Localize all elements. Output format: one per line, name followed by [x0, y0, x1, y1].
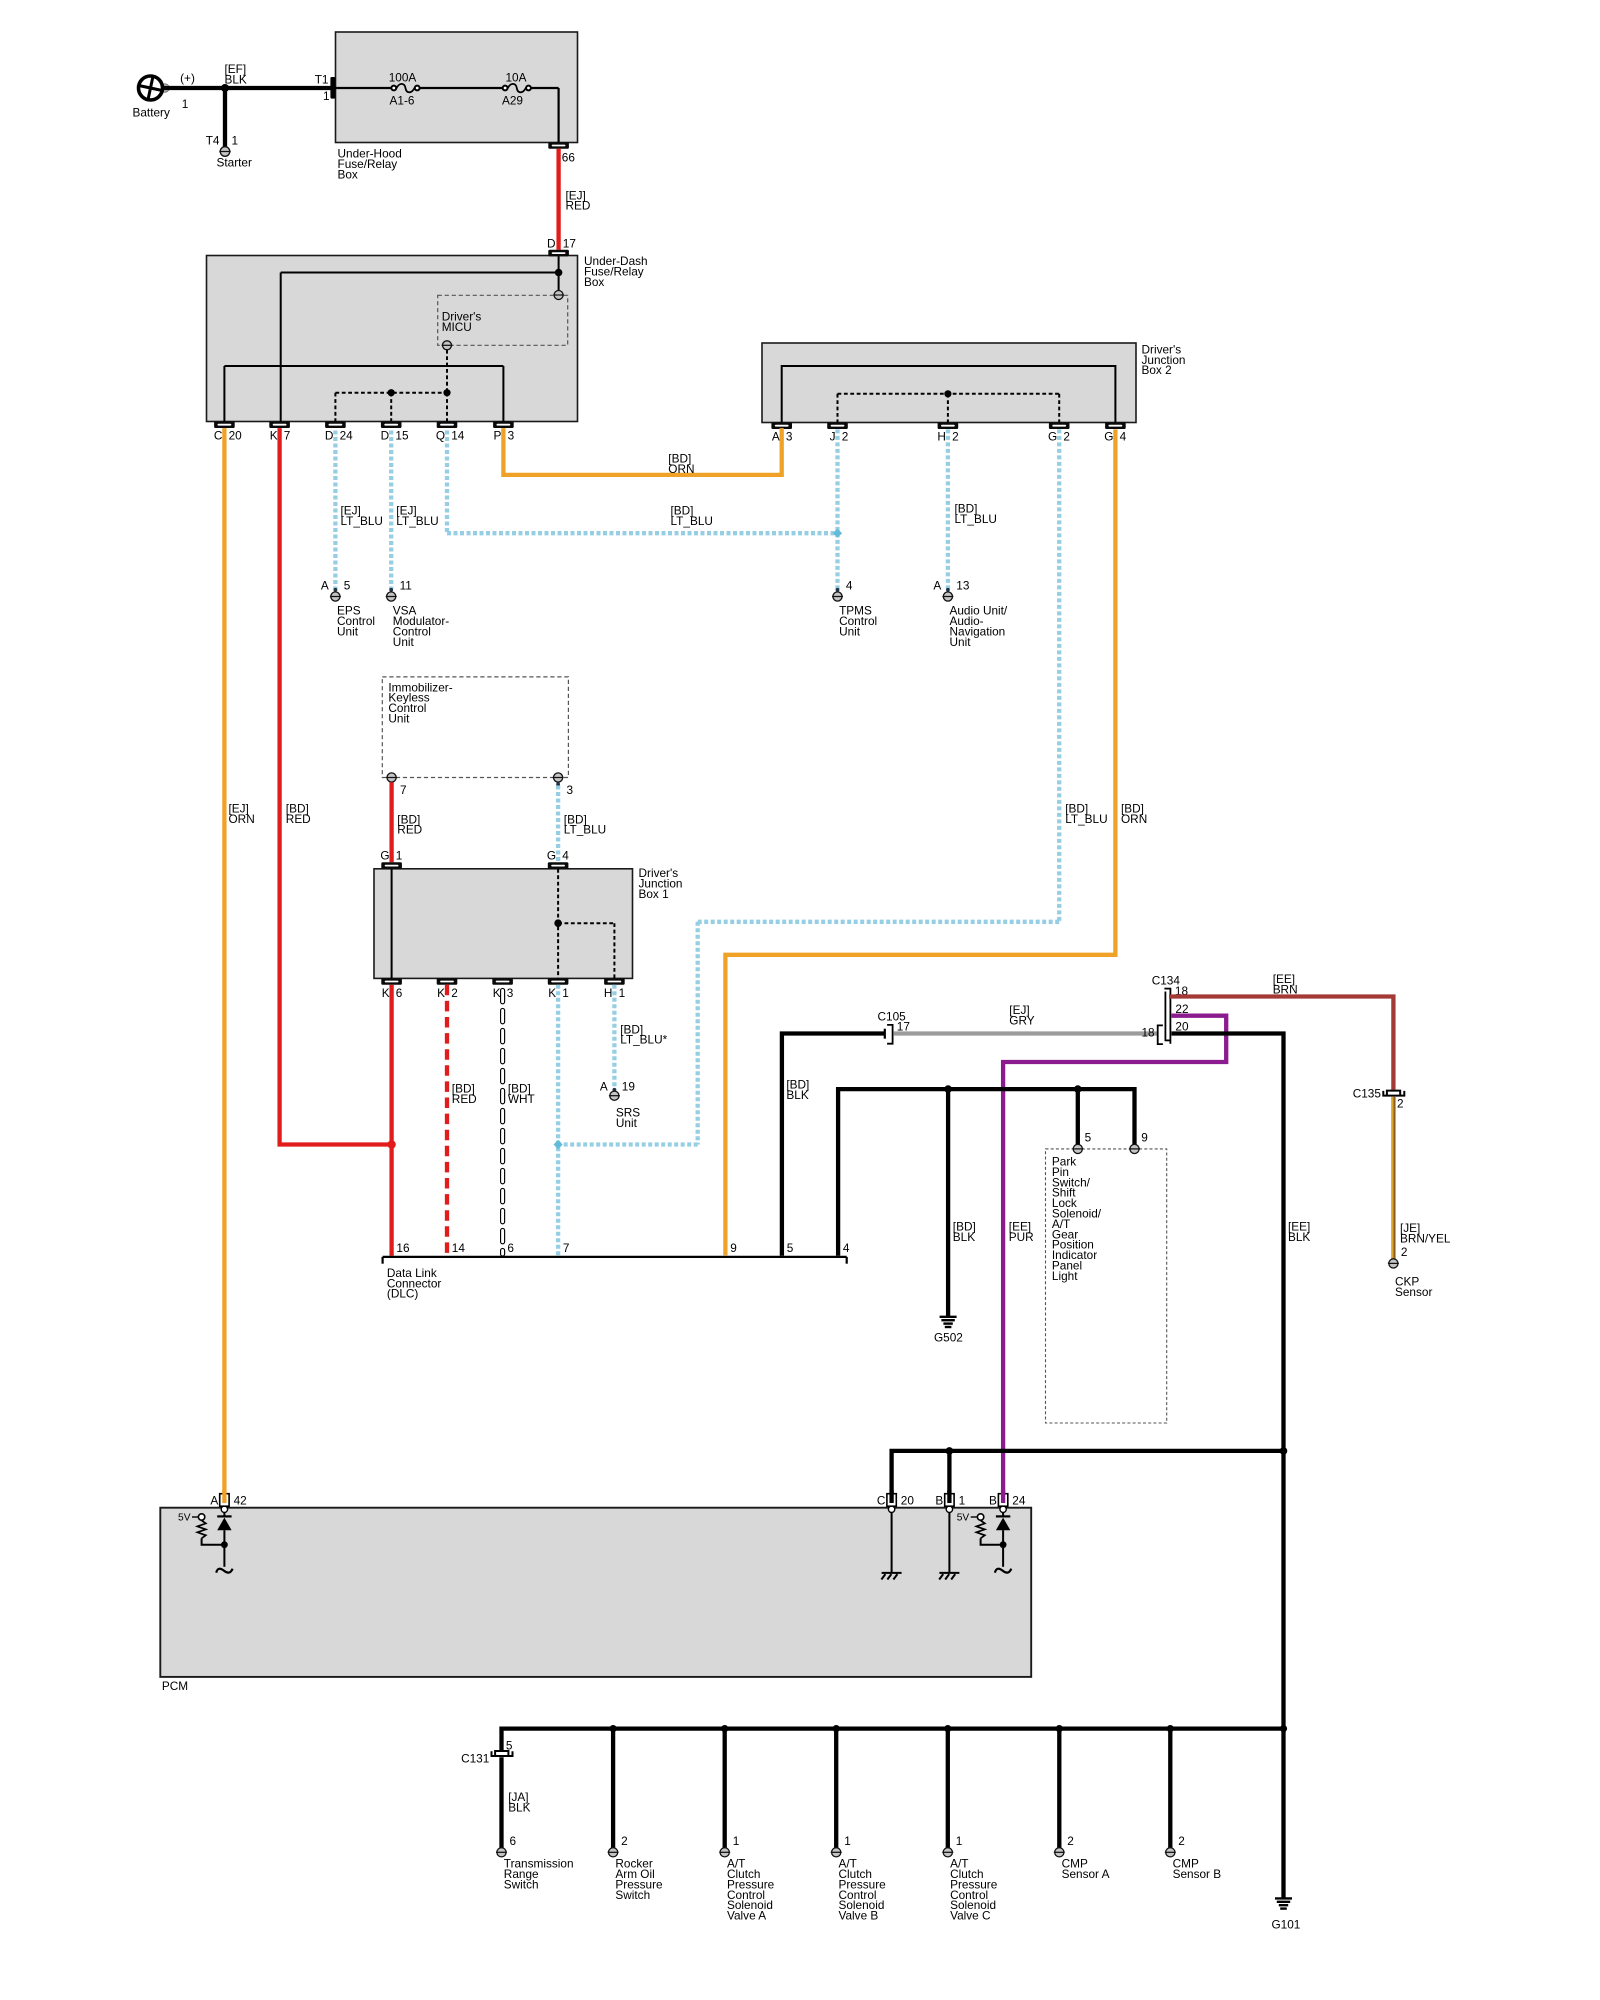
svg-text:GRY: GRY [1009, 1013, 1034, 1027]
svg-text:7: 7 [284, 428, 291, 442]
svg-text:Valve B: Valve B [839, 1909, 879, 1923]
park pin switch / shift lock solenoid box [1046, 1149, 1167, 1423]
terminal 1 A/T Clutch Pressure Control Solenoid Valve B [831, 1834, 886, 1923]
svg-text:14: 14 [452, 1241, 466, 1255]
svg-text:T1: T1 [315, 73, 329, 87]
connector P 3 [493, 421, 514, 442]
svg-text:D: D [547, 237, 556, 251]
junction node EE BLK [1280, 1447, 1288, 1455]
connector K 3 (DJB1) [492, 978, 514, 1000]
junction node under-dash [555, 269, 563, 277]
terminal 2 CMP Sensor A [1054, 1834, 1110, 1881]
svg-text:2: 2 [952, 429, 959, 443]
connector G 1 (DJB1) [380, 849, 402, 869]
terminal 6 Transmission Range Switch [496, 1834, 574, 1892]
wire bus drop at x=947.8 [946, 1729, 950, 1848]
junction node B1 [946, 1447, 954, 1455]
svg-text:2: 2 [451, 986, 458, 1000]
svg-text:2: 2 [1067, 1834, 1074, 1848]
svg-text:Valve C: Valve C [950, 1909, 991, 1923]
svg-text:J: J [830, 429, 836, 443]
svg-text:2: 2 [1401, 1245, 1408, 1259]
fuse 10A A29 [502, 71, 531, 108]
svg-text:BLK: BLK [953, 1230, 975, 1244]
PCM internal C20 ground [881, 1513, 901, 1580]
svg-text:2: 2 [1063, 429, 1070, 443]
svg-text:(+): (+) [180, 71, 195, 85]
svg-text:D: D [325, 428, 334, 442]
PCM box [160, 1508, 1031, 1693]
junction diamond Q14/J2 [833, 529, 842, 538]
svg-text:ORN: ORN [1121, 812, 1147, 826]
connector A 3 (DJB2) [771, 422, 793, 443]
svg-text:RED: RED [566, 199, 591, 213]
svg-text:K: K [493, 986, 501, 1000]
connector K 1 (DJB1) [548, 978, 569, 1000]
svg-text:16: 16 [396, 1241, 410, 1255]
wire [EJ] LT_BLU D24 to EPS [334, 431, 383, 592]
svg-text:BLK: BLK [1288, 1230, 1310, 1244]
dashed wire G4 to K1/H1 internal DJB1 [558, 869, 614, 978]
wire [BD] LT_BLU K1 to DLC 7 [556, 985, 560, 1256]
svg-text:10A: 10A [506, 71, 527, 85]
PCM internal B24: 5V pull-up, diode, signal [957, 1513, 1012, 1573]
svg-text:9: 9 [730, 1241, 737, 1255]
svg-text:C: C [877, 1494, 886, 1508]
wire [BD] BLK C105 to DLC 5 [782, 1034, 885, 1256]
svg-text:G101: G101 [1272, 1917, 1301, 1931]
svg-text:11: 11 [400, 578, 412, 592]
svg-text:G: G [380, 849, 389, 863]
junction node bus [1167, 1725, 1174, 1732]
svg-text:1: 1 [323, 89, 330, 103]
connector C134 pins 18 22 20 [1141, 973, 1188, 1044]
terminal 2 Rocker Arm Oil Pressure Switch [608, 1834, 663, 1902]
junction node DJB1 [554, 919, 562, 927]
svg-text:RED: RED [452, 1092, 477, 1106]
svg-text:B: B [935, 1494, 943, 1508]
svg-text:1: 1 [396, 849, 403, 863]
svg-text:A29: A29 [502, 94, 523, 108]
junction node DJB2 [944, 390, 951, 397]
wire bus drop at x=836.2 [834, 1729, 838, 1848]
svg-text:42: 42 [234, 1494, 247, 1508]
under-dash fuse/relay box [207, 254, 648, 422]
wire [BD] ORN G4 to DLC pin 9 [725, 429, 1147, 1255]
svg-text:7: 7 [563, 1241, 570, 1255]
svg-text:18: 18 [1141, 1025, 1155, 1039]
connector K 2 (DJB1) [437, 978, 458, 1000]
junction node bus [610, 1725, 617, 1732]
wire D17 internal [281, 256, 559, 421]
svg-text:66: 66 [562, 150, 576, 164]
bottom engine harness bus [502, 1726, 1284, 1730]
svg-text:9: 9 [1141, 1131, 1148, 1145]
svg-text:3: 3 [786, 429, 793, 443]
svg-text:5: 5 [1085, 1131, 1092, 1145]
svg-text:Sensor: Sensor [1395, 1285, 1432, 1299]
svg-text:Box 2: Box 2 [1142, 363, 1172, 377]
junction node bus [1056, 1725, 1063, 1732]
svg-text:K: K [382, 986, 390, 1000]
svg-text:6: 6 [507, 1241, 514, 1255]
wire C20 to P3 internal [224, 366, 503, 421]
svg-text:LT_BLU: LT_BLU [396, 514, 438, 528]
svg-text:LT_BLU: LT_BLU [671, 514, 713, 528]
wire [JA] BLK C131 to transmission range switch [502, 1757, 531, 1847]
svg-text:WHT: WHT [508, 1092, 535, 1106]
connector D 24 [325, 421, 353, 442]
connector K 6 (DJB1) [381, 978, 403, 1000]
starter terminal T4 1 [206, 134, 252, 170]
wire G1 to K6 internal DJB1 [391, 869, 393, 978]
svg-text:P: P [494, 428, 502, 442]
svg-text:4: 4 [1120, 429, 1127, 443]
junction node bus [944, 1725, 951, 1732]
svg-text:15: 15 [395, 428, 409, 442]
svg-text:3: 3 [567, 783, 574, 797]
svg-text:17: 17 [563, 237, 576, 251]
svg-text:2: 2 [842, 429, 849, 443]
connector G 4 (DJB2) [1104, 422, 1126, 443]
junction diamond K1/G2 [554, 1140, 563, 1149]
svg-text:T4: T4 [206, 134, 220, 148]
svg-text:1: 1 [619, 986, 626, 1000]
orange wire tip into A42 [222, 1490, 226, 1503]
svg-text:1: 1 [182, 97, 189, 111]
svg-text:K: K [270, 428, 278, 442]
svg-text:C135: C135 [1353, 1087, 1382, 1101]
svg-text:Valve A: Valve A [727, 1909, 766, 1923]
svg-text:RED: RED [286, 812, 311, 826]
svg-text:1: 1 [562, 986, 569, 1000]
svg-text:C: C [214, 428, 223, 442]
terminal 2 CMP Sensor B [1165, 1834, 1221, 1881]
svg-text:H: H [937, 429, 946, 443]
connector G 2 (DJB2) [1048, 422, 1070, 443]
svg-text:1: 1 [733, 1834, 740, 1848]
svg-text:Sensor B: Sensor B [1173, 1867, 1222, 1881]
svg-text:K: K [548, 986, 556, 1000]
svg-text:A1-6: A1-6 [390, 94, 415, 108]
svg-text:Unit: Unit [616, 1116, 638, 1130]
wire bus to C131 [499, 1727, 503, 1751]
CKP sensor 2 [1388, 1245, 1433, 1299]
under-hood fuse/relay box [336, 32, 578, 181]
svg-text:2: 2 [1178, 1834, 1185, 1848]
svg-text:G: G [547, 849, 556, 863]
svg-text:G: G [1104, 429, 1113, 443]
svg-text:A: A [772, 429, 780, 443]
connector J 2 (DJB2) [827, 422, 848, 443]
svg-text:4: 4 [846, 578, 853, 592]
wire [BD] LT_BLU* H1 to SRS [613, 985, 668, 1092]
svg-text:D: D [381, 428, 390, 442]
svg-text:PCM: PCM [162, 1679, 188, 1693]
svg-text:Unit: Unit [950, 635, 972, 649]
junction node park pin 5 branch [1074, 1085, 1082, 1093]
svg-text:LT_BLU: LT_BLU [341, 514, 383, 528]
svg-text:Light: Light [1052, 1269, 1078, 1283]
svg-text:1: 1 [959, 1494, 966, 1508]
svg-text:6: 6 [510, 1834, 517, 1848]
connector K 7 [269, 421, 290, 442]
svg-text:4: 4 [843, 1241, 850, 1255]
svg-text:1: 1 [956, 1834, 963, 1848]
wire [EE] PUR C134 22 to PCM B24 [1003, 1016, 1226, 1503]
wire [BD] BLK DLC 4 to park pin switch [838, 1089, 1134, 1316]
PCM connector A 42 [210, 1494, 246, 1513]
junction nodes dashed [388, 389, 395, 396]
wire bus drop at x=1170.3 [1168, 1729, 1172, 1848]
svg-text:20: 20 [901, 1494, 915, 1508]
svg-text:Sensor A: Sensor A [1062, 1867, 1110, 1881]
svg-text:Switch: Switch [615, 1888, 650, 1902]
EPS control unit A 5 [321, 578, 375, 638]
wire [BD] RED (dashed) K2 to DLC 14 [447, 985, 477, 1256]
wire [BD] LT_BLU Q14 to TPMS column [447, 431, 838, 534]
svg-text:(DLC): (DLC) [387, 1287, 419, 1301]
fuse 100A A1-6 [389, 71, 420, 108]
driver's MICU [438, 291, 568, 350]
connector D 17 [547, 237, 576, 257]
junction node T4 [221, 84, 229, 92]
svg-text:BLK: BLK [225, 72, 247, 86]
svg-text:H: H [604, 986, 613, 1000]
wire A3 to G4 internal [782, 366, 1116, 422]
wire [EJ] ORN C20 to PCM A42 [224, 428, 254, 1503]
svg-text:5: 5 [506, 1738, 513, 1752]
svg-text:100A: 100A [389, 71, 417, 85]
svg-text:14: 14 [451, 428, 465, 442]
wire to starter [223, 88, 227, 147]
svg-text:A: A [933, 578, 941, 592]
svg-text:Box 1: Box 1 [639, 887, 669, 901]
svg-text:24: 24 [1012, 1494, 1026, 1508]
wire [BD] RED immobilizer 7 to G1 [392, 782, 423, 862]
black wire tips into C20 B1 [889, 1490, 893, 1503]
junction node red [387, 1140, 395, 1148]
PCM internal A42: 5V pull-up, diode, signal [178, 1513, 233, 1573]
connector H 1 (DJB1) [604, 978, 625, 1000]
svg-text:A: A [600, 1079, 608, 1093]
svg-text:24: 24 [340, 428, 354, 442]
connector G 4 (DJB1) [547, 849, 569, 869]
wire to G101 [1281, 1729, 1285, 1898]
svg-text:1: 1 [232, 134, 239, 148]
connector C131 pin 5 [461, 1738, 513, 1765]
svg-text:19: 19 [622, 1079, 635, 1093]
svg-text:3: 3 [507, 986, 514, 1000]
svg-text:ORN: ORN [668, 462, 694, 476]
svg-text:6: 6 [396, 986, 403, 1000]
junction node G502 branch [944, 1085, 952, 1093]
svg-text:7: 7 [400, 783, 407, 797]
svg-text:G: G [1048, 429, 1057, 443]
wire [BD] LT_BLU G2 long run to K1 column [558, 429, 1108, 1144]
svg-text:Switch: Switch [504, 1877, 539, 1891]
svg-text:A: A [210, 1494, 218, 1508]
PCM connector B 24 [989, 1494, 1026, 1513]
SRS unit A 19 [600, 1079, 640, 1129]
svg-text:A: A [321, 578, 329, 592]
junction node bus [721, 1725, 728, 1732]
audio unit A 13 [933, 578, 1008, 649]
VSA modulator-control unit 11 [386, 578, 450, 649]
immobilizer-keyless control unit [382, 677, 573, 797]
wire [EJ] LT_BLU D15 to VSA [389, 431, 438, 592]
svg-text:Box: Box [338, 167, 358, 181]
wire [BD] RED K7 to K6 column [280, 428, 392, 1144]
svg-text:Starter: Starter [217, 156, 252, 170]
PCM connector B 1 [935, 1494, 965, 1513]
svg-text:2: 2 [1397, 1097, 1404, 1111]
park pin switch terminal 5 [1072, 1131, 1091, 1154]
svg-text:BLK: BLK [786, 1088, 808, 1102]
svg-text:3: 3 [508, 428, 515, 442]
connector H 2 (DJB2) [937, 422, 958, 443]
svg-text:G502: G502 [934, 1330, 963, 1344]
svg-text:MICU: MICU [442, 320, 472, 334]
wire inside under-hood box [335, 88, 558, 142]
svg-text:Q: Q [436, 428, 445, 442]
svg-text:2: 2 [621, 1834, 628, 1848]
junction node bus [1280, 1725, 1287, 1732]
svg-text:Battery: Battery [133, 106, 170, 120]
purple wire tip into B24 [1001, 1490, 1005, 1503]
PCM internal B1 ground [939, 1513, 959, 1580]
junction node bus [833, 1725, 840, 1732]
terminal 1 A/T Clutch Pressure Control Solenoid Valve A [719, 1834, 774, 1923]
svg-text:13: 13 [956, 578, 970, 592]
svg-text:LT_BLU: LT_BLU [564, 823, 606, 837]
TPMS control unit 4 [832, 578, 877, 638]
svg-text:20: 20 [229, 428, 243, 442]
svg-text:5V: 5V [178, 1513, 191, 1524]
wire [BD] LT_BLU J2 to TPMS [836, 429, 840, 591]
svg-text:1: 1 [844, 1834, 851, 1848]
svg-text:PUR: PUR [1009, 1230, 1034, 1244]
connector Q 14 [436, 421, 465, 442]
connector C135 pin 2 [1353, 1087, 1405, 1111]
battery [133, 71, 195, 120]
svg-text:Unit: Unit [393, 635, 415, 649]
connector T1 pin 1 [315, 73, 336, 104]
wire [JE] BRN/YEL C135 to CKP sensor [1392, 1097, 1451, 1259]
shift lock terminal 9 [1129, 1131, 1148, 1154]
wire [EE] BRN C134 18 to C135 [1169, 972, 1393, 1090]
driver's junction box 1 [374, 866, 682, 978]
connector 66 [548, 142, 575, 164]
driver's junction box 2 [762, 342, 1185, 422]
wire bus drop at x=1059.3 [1057, 1729, 1061, 1848]
svg-text:B: B [989, 1494, 997, 1508]
svg-text:5: 5 [787, 1241, 794, 1255]
wire bus drop at x=724.7 [723, 1729, 727, 1848]
connector D 15 [381, 421, 409, 442]
svg-text:BLK: BLK [508, 1800, 530, 1814]
wire [EJ] GRY C105 to C134 [894, 1003, 1157, 1034]
svg-text:LT_BLU: LT_BLU [955, 512, 997, 526]
wire [EE] BLK C134 20 to PCM and G101 [892, 1034, 1311, 1729]
svg-text:C131: C131 [461, 1752, 489, 1766]
dashed wires inside under-dash box [335, 350, 447, 422]
data link connector (DLC) [383, 1257, 847, 1301]
connector C105 pin 17 [878, 1010, 910, 1044]
wire [BD] LT_BLU immobilizer 3 to G4 [556, 782, 606, 862]
svg-text:BRN/YEL: BRN/YEL [1400, 1231, 1451, 1245]
wire [EJ] RED 66 to D17 [559, 149, 591, 250]
PCM connector C 20 [877, 1494, 914, 1513]
svg-text:BRN: BRN [1273, 982, 1298, 996]
wire [BD] ORN P3 to A3 [503, 428, 781, 476]
ground G101 [1272, 1898, 1301, 1931]
svg-text:K: K [437, 986, 445, 1000]
ground G502 [934, 1317, 963, 1345]
svg-text:ORN: ORN [229, 812, 255, 826]
svg-text:LT_BLU: LT_BLU [1065, 812, 1107, 826]
wire [BD] LT_BLU H2 to audio unit [946, 429, 997, 591]
wire [BD] RED K6 to DLC 16 [389, 985, 393, 1256]
terminal 1 A/T Clutch Pressure Control Solenoid Valve C [942, 1834, 997, 1923]
svg-text:LT_BLU*: LT_BLU* [620, 1033, 667, 1047]
svg-text:RED: RED [397, 823, 422, 837]
dashed bus inside DJB2 [838, 394, 1060, 423]
svg-text:5: 5 [344, 578, 351, 592]
svg-text:4: 4 [562, 849, 569, 863]
svg-text:Unit: Unit [839, 624, 861, 638]
wire [BD] WHT K3 to DLC 6 [503, 991, 535, 1255]
connector C 20 [214, 421, 242, 442]
svg-text:Unit: Unit [388, 712, 410, 726]
svg-text:Unit: Unit [337, 624, 359, 638]
svg-text:5V: 5V [957, 1513, 970, 1524]
svg-text:Box: Box [584, 275, 604, 289]
wire bus drop at x=613.1 [611, 1729, 615, 1848]
wire battery to T1 [EF] BLK [163, 62, 332, 88]
